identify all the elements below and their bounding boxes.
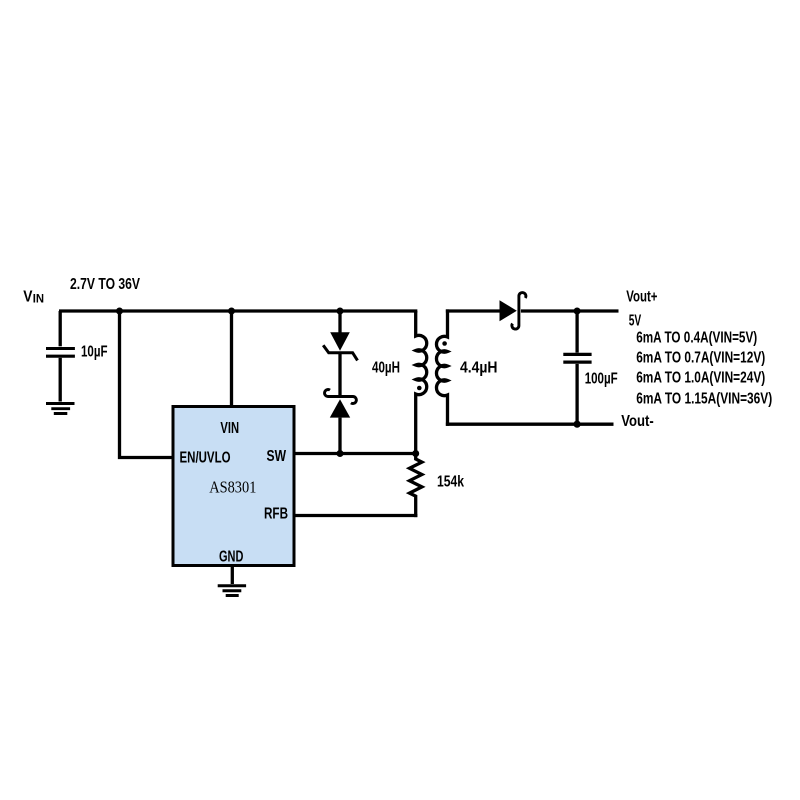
zener D1 bent bar [323, 345, 357, 360]
svg-text:IN: IN [33, 291, 44, 305]
schottky D2 (anode-down) triangle [330, 399, 350, 417]
svg-text:6mA TO 1.0A(VIN=24V): 6mA TO 1.0A(VIN=24V) [636, 369, 765, 386]
svg-text:154k: 154k [437, 473, 464, 490]
node: secondary phase dot [442, 341, 447, 346]
node: primary phase dot [417, 386, 422, 391]
svg-text:6mA TO 1.15A(VIN=36V): 6mA TO 1.15A(VIN=36V) [636, 390, 772, 407]
svg-text:Vout+: Vout+ [626, 288, 657, 305]
ground: below C1 [46, 404, 75, 414]
wire: VIN top rail [59, 309, 417, 312]
label: 4.4uH value [460, 360, 498, 377]
wire: C1 bottom lead [59, 358, 62, 402]
label: Vout+ net [626, 288, 657, 305]
wire: C2 top lead [575, 311, 578, 353]
label: Vout- net [621, 413, 654, 430]
node: junction dot primary/SW [412, 450, 419, 457]
wire: C2 bottom lead [575, 364, 578, 424]
diode D3 output schottky triangle [500, 300, 517, 321]
diode D3 curly bar [512, 293, 526, 330]
node: junction dot zener rail [337, 308, 344, 315]
label: 5V output [629, 312, 642, 329]
svg-text:GND: GND [219, 548, 243, 565]
inductor T1 primary 40uH [416, 311, 427, 454]
svg-text:SW: SW [267, 448, 287, 465]
label: VIN net [23, 288, 44, 305]
svg-text:100µF: 100µF [585, 370, 618, 387]
wire: between D1 and D2 [338, 353, 341, 396]
zener D1 (cathode-down) triangle [330, 332, 350, 351]
wire: D2 bottom lead [338, 418, 341, 454]
label: output current line 2 [636, 349, 765, 366]
wire: SW rail [294, 452, 416, 455]
svg-text:10µF: 10µF [81, 343, 108, 360]
node: junction dot VIN rail [228, 308, 235, 315]
inductor T1 secondary 4.4uH [436, 309, 447, 426]
svg-text:6mA TO 0.7A(VIN=12V): 6mA TO 0.7A(VIN=12V) [636, 349, 765, 366]
label: 40uH value [372, 359, 400, 376]
pin label: VIN [220, 420, 239, 437]
wire: IC GND stub [231, 566, 234, 585]
svg-text:2.7V TO 36V: 2.7V TO 36V [70, 276, 140, 293]
wire: C1 top lead [59, 311, 62, 346]
wire: Vout- bottom rail [446, 423, 614, 426]
svg-text:4.4µH: 4.4µH [460, 360, 498, 377]
label: output current line 3 [636, 369, 765, 386]
svg-text:6mA TO 0.4A(VIN=5V): 6mA TO 0.4A(VIN=5V) [636, 329, 757, 346]
resistor R1 154k [410, 454, 422, 518]
svg-text:V: V [23, 288, 32, 305]
pin label: EN/UVLO [180, 449, 231, 466]
schottky D2 curly bar [325, 390, 357, 404]
svg-text:AS8301: AS8301 [209, 477, 256, 496]
label: output current line 1 [636, 329, 757, 346]
pin label: GND [219, 548, 243, 565]
svg-text:EN/UVLO: EN/UVLO [180, 449, 231, 466]
wire: VIN pin drop [230, 311, 233, 406]
pin label: RFB [264, 506, 288, 523]
label: 100uF value [585, 370, 618, 387]
svg-text:RFB: RFB [264, 506, 288, 523]
wire: EN/UVLO branch [120, 311, 172, 458]
wire: secondary top to diode [446, 309, 500, 312]
capacitor C2 100uF plates [563, 354, 591, 362]
node: junction dot C2 bottom [574, 421, 581, 428]
label: AS8301 part number [209, 477, 256, 496]
svg-text:40µH: 40µH [372, 359, 400, 376]
svg-text:VIN: VIN [220, 420, 239, 437]
node: junction dot zener/SW [337, 450, 344, 457]
ground: below IC [218, 586, 246, 596]
pin label: SW [267, 448, 287, 465]
label: 154k value [437, 473, 464, 490]
wire: zener branch top lead [338, 311, 341, 333]
label: output current line 4 [636, 390, 772, 407]
wire: RFB return [294, 514, 417, 517]
label: 10uF value [81, 343, 108, 360]
node: junction dot EN rail [116, 308, 123, 315]
node: junction dot C2 top [574, 308, 581, 315]
capacitor C1 10uF plates [46, 349, 75, 357]
svg-text:5V: 5V [629, 312, 642, 329]
wire: diode to Vout+ [521, 309, 619, 312]
svg-text:Vout-: Vout- [621, 413, 654, 430]
label: 2.7V TO 36V [70, 276, 140, 293]
IC U1 AS8301 body [173, 407, 294, 566]
